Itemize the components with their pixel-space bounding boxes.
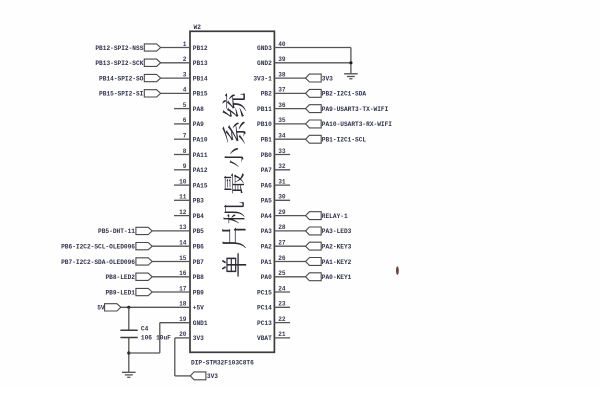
pin 8 PA11 (left) (174, 154, 190, 156)
svg-text:PB13: PB13 (193, 60, 208, 67)
svg-text:28: 28 (278, 224, 286, 231)
svg-text:5V: 5V (97, 305, 105, 312)
junction on +5V net (127, 306, 130, 309)
svg-text:PC15: PC15 (257, 289, 272, 296)
svg-text:23: 23 (278, 301, 286, 308)
svg-text:GND3: GND3 (257, 45, 272, 52)
svg-text:5: 5 (183, 102, 187, 109)
svg-text:2: 2 (183, 56, 187, 63)
pin 36 PB11 (right) (274, 108, 305, 110)
svg-text:PA10: PA10 (193, 137, 208, 144)
svg-text:PA1-KEY2: PA1-KEY2 (322, 259, 352, 266)
svg-text:106: 106 (141, 334, 152, 341)
svg-text:C4: C4 (141, 325, 149, 332)
net flag PA9-USART3-TX-WIFI (306, 105, 322, 113)
wire GND3 pin 40 to ground (350, 48, 352, 74)
svg-text:PB12: PB12 (193, 45, 208, 52)
svg-text:7: 7 (183, 133, 187, 140)
svg-text:22: 22 (278, 316, 286, 323)
svg-text:18: 18 (179, 301, 187, 308)
svg-text:PB5-DHT-11: PB5-DHT-11 (98, 228, 135, 235)
svg-text:DIP-STM32F103C8T6: DIP-STM32F103C8T6 (191, 359, 254, 366)
wire 3V3 pin 20 down (174, 338, 176, 376)
svg-text:29: 29 (278, 209, 286, 216)
svg-text:36: 36 (278, 102, 286, 109)
svg-text:PB8: PB8 (193, 274, 204, 281)
svg-text:PB6: PB6 (193, 244, 204, 251)
svg-text:13: 13 (179, 224, 187, 231)
pin 5 PA8 (left) (174, 108, 190, 110)
artifact mark (396, 266, 399, 275)
pin 6 PA9 (left) (174, 123, 190, 125)
svg-text:1: 1 (183, 41, 187, 48)
pin 33 PB0 (right) (274, 154, 290, 156)
svg-text:PB4: PB4 (193, 213, 204, 220)
junction GND net (127, 351, 130, 354)
svg-text:14: 14 (179, 240, 187, 247)
svg-text:PB15: PB15 (193, 91, 208, 98)
pin 3 PB14 (left) (161, 77, 190, 79)
IC W2 DIP-STM32F103C8T6 (MCU minimal system) body (190, 31, 274, 352)
net flag PA10-USART3-RX-WIFI (306, 120, 322, 128)
pin 35 PB10 (right) (274, 123, 305, 125)
pin 13 PB5 (left) (152, 230, 190, 232)
svg-text:PB0: PB0 (261, 152, 272, 159)
net flag PB15-SPI2-SI (144, 90, 160, 97)
svg-text:3V3-1: 3V3-1 (253, 75, 272, 82)
power flag 5V (105, 304, 121, 311)
svg-text:35: 35 (278, 117, 286, 124)
svg-text:PB10: PB10 (257, 121, 272, 128)
svg-text:PB9-LED1: PB9-LED1 (105, 289, 135, 296)
svg-text:24: 24 (278, 285, 286, 292)
pin 12 PB4 (left) (174, 215, 190, 217)
svg-text:10: 10 (179, 178, 187, 185)
svg-text:26: 26 (278, 255, 286, 262)
net flag PB14-SPI2-SO (144, 74, 160, 81)
net flag 3V3 (306, 74, 322, 82)
wire GND1 pin to ground net (160, 322, 190, 324)
pin 15 PB7 (left) (152, 261, 190, 263)
net flag PB5-DHT-11 (136, 227, 152, 234)
svg-text:PB6-I2C2-SCL-OLED096: PB6-I2C2-SCL-OLED096 (61, 244, 135, 251)
capacitor C4 (120, 329, 137, 331)
svg-text:PB15-SPI2-SI: PB15-SPI2-SI (99, 91, 144, 98)
svg-text:PA5: PA5 (261, 198, 272, 205)
wire C4 to ground (128, 338, 130, 373)
pin 32 PA7 (right) (274, 169, 290, 171)
svg-text:21: 21 (278, 331, 286, 338)
pin 4 PB15 (left) (161, 92, 190, 94)
svg-text:PA1: PA1 (261, 259, 272, 266)
svg-text:31: 31 (278, 178, 286, 185)
svg-text:PA9-USART3-TX-WIFI: PA9-USART3-TX-WIFI (322, 106, 389, 113)
pin 9 PA12 (left) (174, 169, 190, 171)
wire +5V to C4 (128, 307, 130, 330)
svg-text:PA10-USART3-RX-WIFI: PA10-USART3-RX-WIFI (322, 121, 392, 128)
svg-text:PA3-LED3: PA3-LED3 (322, 228, 352, 235)
pin 20 3V3 (left) (175, 337, 190, 339)
net flag PA1-KEY2 (306, 258, 322, 266)
pin 23 PC14 (right) (274, 306, 290, 308)
svg-text:10uF: 10uF (156, 334, 171, 341)
svg-text:27: 27 (278, 240, 286, 247)
svg-text:PB1: PB1 (261, 137, 272, 144)
net flag PB12-SPI2-NSS (144, 44, 160, 51)
svg-text:PA11: PA11 (193, 152, 208, 159)
svg-text:PA9: PA9 (193, 121, 204, 128)
svg-text:4: 4 (183, 87, 187, 94)
svg-text:6: 6 (183, 117, 187, 124)
svg-text:GND1: GND1 (193, 320, 208, 327)
svg-text:PA7: PA7 (261, 167, 272, 174)
pin 37 PB2 (right) (274, 92, 305, 94)
svg-text:3V3: 3V3 (322, 75, 333, 82)
pin 29 PA4 (right) (274, 215, 305, 217)
svg-text:34: 34 (278, 133, 286, 140)
svg-text:39: 39 (278, 56, 286, 63)
svg-text:PB1-I2C1-SCL: PB1-I2C1-SCL (322, 137, 367, 144)
svg-text:37: 37 (278, 87, 286, 94)
svg-text:19: 19 (179, 316, 187, 323)
svg-text:3V3: 3V3 (207, 373, 218, 380)
svg-text:11: 11 (179, 194, 187, 201)
svg-text:PB12-SPI2-NSS: PB12-SPI2-NSS (95, 45, 143, 52)
svg-text:3: 3 (183, 71, 187, 78)
net flag PB8-LED2 (136, 273, 152, 280)
pin 11 PB3 (left) (174, 199, 190, 201)
svg-text:PB2: PB2 (261, 91, 272, 98)
net flag RELAY-1 (306, 212, 322, 220)
svg-text:PA0-KEY1: PA0-KEY1 (322, 274, 352, 281)
svg-text:PB5: PB5 (193, 228, 204, 235)
svg-text:PA2-KEY3: PA2-KEY3 (322, 244, 352, 251)
net flag PA3-LED3 (306, 227, 322, 235)
svg-text:PB2-I2C1-SDA: PB2-I2C1-SDA (322, 91, 367, 98)
pin 31 PA6 (right) (274, 184, 290, 186)
net flag PA0-KEY1 (306, 273, 322, 281)
svg-text:32: 32 (278, 163, 286, 170)
svg-text:17: 17 (179, 285, 187, 292)
svg-text:16: 16 (179, 270, 187, 277)
svg-text:PB13-SPI2-SCK: PB13-SPI2-SCK (95, 60, 143, 67)
pin 10 PA15 (left) (174, 184, 190, 186)
svg-text:+5V: +5V (193, 305, 204, 312)
svg-text:VBAT: VBAT (257, 335, 272, 342)
svg-text:PB9: PB9 (193, 289, 204, 296)
pin 22 PC13 (right) (274, 322, 290, 324)
svg-text:12: 12 (179, 209, 187, 216)
svg-text:9: 9 (183, 163, 187, 170)
pin 30 PA5 (right) (274, 199, 290, 201)
IC title text 单片机最小系统 (rotated) (222, 93, 246, 276)
pin 17 PB9 (left) (152, 291, 190, 293)
net flag PB7-I2C2-SDA-OLED096 (136, 258, 152, 265)
svg-text:PC13: PC13 (257, 320, 272, 327)
svg-text:PB14-SPI2-SO: PB14-SPI2-SO (99, 75, 144, 82)
pin 28 PA3 (right) (274, 230, 305, 232)
svg-text:PB14: PB14 (193, 75, 208, 82)
svg-text:W2: W2 (194, 24, 202, 31)
ground symbol (top right) (344, 73, 358, 75)
net flag PB13-SPI2-SCK (144, 59, 160, 66)
pin 1 PB12 (left) (161, 47, 190, 49)
svg-text:15: 15 (179, 255, 187, 262)
pin 39 GND2 (right) (274, 62, 351, 64)
pin 21 VBAT (right) (274, 337, 290, 339)
ground symbol (bottom left) (122, 371, 136, 373)
net flag PA2-KEY3 (306, 242, 322, 250)
pin 25 PA0 (right) (274, 276, 305, 278)
svg-text:PB11: PB11 (257, 106, 272, 113)
pin 34 PB1 (right) (274, 138, 305, 140)
svg-text:PB3: PB3 (193, 198, 204, 205)
svg-text:PB7: PB7 (193, 259, 204, 266)
svg-text:3V3: 3V3 (193, 335, 204, 342)
net flag PB6-I2C2-SCL-OLED096 (136, 243, 152, 250)
svg-text:PA6: PA6 (261, 182, 272, 189)
pin 26 PA1 (right) (274, 261, 305, 263)
svg-text:8: 8 (183, 148, 187, 155)
svg-text:PB8-LED2: PB8-LED2 (105, 274, 135, 281)
pin 14 PB6 (left) (152, 245, 190, 247)
svg-text:PB7-I2C2-SDA-OLED096: PB7-I2C2-SDA-OLED096 (61, 259, 135, 266)
pin 27 PA2 (right) (274, 245, 305, 247)
power flag 3V3 (bottom) (190, 372, 206, 380)
svg-text:PA2: PA2 (261, 244, 272, 251)
pin 7 PA10 (left) (174, 138, 190, 140)
net flag PB2-I2C1-SDA (306, 89, 322, 97)
pin 18 +5V (left) (121, 306, 190, 308)
net flag PB1-I2C1-SCL (306, 135, 322, 143)
junction GND right (349, 61, 352, 64)
svg-text:40: 40 (278, 41, 286, 48)
svg-text:38: 38 (278, 71, 286, 78)
pin 19 GND1 (left) (160, 322, 190, 324)
svg-text:PC14: PC14 (257, 305, 272, 312)
pin 16 PB8 (left) (152, 276, 190, 278)
pin 2 PB13 (left) (161, 62, 190, 64)
svg-text:PA8: PA8 (193, 106, 204, 113)
svg-text:PA12: PA12 (193, 167, 208, 174)
net flag PB9-LED1 (136, 288, 152, 295)
svg-text:PA3: PA3 (261, 228, 272, 235)
svg-text:RELAY-1: RELAY-1 (322, 213, 348, 220)
svg-text:30: 30 (278, 194, 286, 201)
pin 40 GND3 (right) (274, 47, 351, 49)
pin 38 3V3-1 (right) (274, 77, 305, 79)
svg-text:PA15: PA15 (193, 182, 208, 189)
svg-text:PA0: PA0 (261, 274, 272, 281)
svg-text:GND2: GND2 (257, 60, 272, 67)
svg-text:33: 33 (278, 148, 286, 155)
svg-text:25: 25 (278, 270, 286, 277)
svg-text:20: 20 (179, 331, 187, 338)
pin 24 PC15 (right) (274, 291, 290, 293)
svg-text:PA4: PA4 (261, 213, 272, 220)
